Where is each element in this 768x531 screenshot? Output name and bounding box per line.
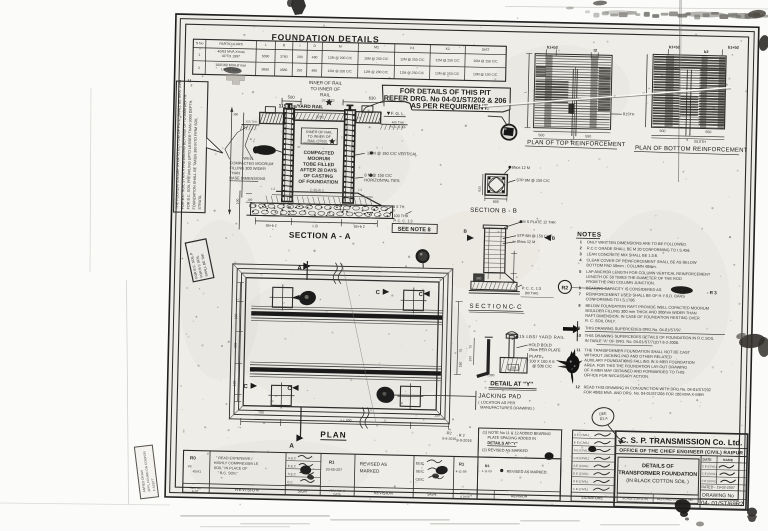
svg-text:8-9-2016: 8-9-2016 (442, 437, 456, 441)
svg-text:R3: R3 (485, 464, 490, 468)
svg-text:95+b 2: 95+b 2 (266, 224, 277, 228)
svg-text:SIGNATURE: SIGNATURE (581, 496, 603, 501)
svg-text:480: 480 (311, 69, 317, 73)
svg-text:3760: 3760 (280, 55, 288, 59)
svg-text:250: 250 (297, 68, 303, 72)
svg-text:t: t (300, 44, 301, 48)
svg-text:12M @ 200 C/C: 12M @ 200 C/C (328, 69, 353, 74)
svg-text:480: 480 (312, 55, 318, 59)
svg-text:04- 01/ST/69R2: 04- 01/ST/69R2 (701, 501, 744, 508)
svg-text:NOTES: NOTES (577, 231, 602, 239)
svg-text:150: 150 (468, 356, 472, 362)
SECTION B-B column section (485, 174, 507, 195)
svg-text:S E C T I O N C- C: S E C T I O N C- C (469, 303, 522, 311)
svg-text:100: 100 (236, 198, 240, 204)
svg-text:AS PER REQUIRMENT.: AS PER REQUIRMENT. (411, 101, 489, 112)
svg-text:12M @ 250 C/C: 12M @ 250 C/C (400, 57, 425, 62)
left margin vertical note block (174, 81, 208, 213)
svg-text:E E (CIVIL): E E (CIVIL) (574, 440, 589, 444)
svg-text:8Nos 12 M: 8Nos 12 M (512, 166, 530, 170)
svg-text:10M @ 150 C/C: 10M @ 150 C/C (473, 59, 498, 64)
svg-text:(80 THK): (80 THK) (525, 291, 539, 295)
note box: FOR DETAILS OF THIS PIT REFER DRG (382, 85, 511, 112)
svg-text:10M @ 200 C/C: 10M @ 200 C/C (364, 57, 389, 62)
svg-text:500: 500 (538, 133, 544, 137)
svg-text:12M @ 250 C/C: 12M @ 250 C/C (435, 58, 460, 63)
svg-text:& DATE: & DATE (460, 495, 470, 499)
svg-text:a + 600: a + 600 (340, 418, 352, 422)
svg-text:500: 500 (659, 129, 665, 133)
svg-text:TO INNER OF: TO INNER OF (311, 86, 341, 92)
svg-text:K2: K2 (446, 47, 450, 51)
svg-text:M S PLATE 12 THK: M S PLATE 12 THK (522, 220, 556, 225)
DETAIL AT Y rail fixing detail (477, 339, 489, 377)
svg-text:550: 550 (585, 134, 591, 138)
svg-text:100 THK: 100 THK (393, 214, 408, 218)
svg-text:b1+b2: b1+b2 (728, 46, 739, 50)
svg-text:F. G. L.: F. G. L. (391, 111, 405, 116)
svg-text:K1: K1 (410, 46, 414, 50)
svg-text:4580: 4580 (280, 68, 288, 72)
svg-text:A: A (297, 265, 302, 272)
svg-text:4-11-09: 4-11-09 (456, 469, 467, 473)
svg-text:- R 2: - R 2 (456, 433, 464, 437)
svg-text:REVISION: REVISION (511, 494, 528, 498)
svg-text:L: L (265, 43, 267, 47)
signature column (571, 430, 616, 502)
svg-text:STRATA.: STRATA. (198, 195, 202, 210)
svg-text:700: 700 (258, 410, 264, 414)
svg-text:12M @ 250 C/C: 12M @ 250 C/C (400, 71, 425, 76)
svg-text:550: 550 (705, 130, 711, 134)
svg-text:A E (CIVIL): A E (CIVIL) (574, 433, 589, 437)
svg-text:2: 2 (198, 66, 200, 70)
svg-text:PLAN: PLAN (320, 430, 346, 440)
svg-text:600: 600 (493, 200, 499, 204)
svg-text:& DT: & DT (192, 489, 199, 493)
svg-text:630: 630 (478, 186, 482, 192)
svg-text:S No: S No (196, 41, 204, 45)
svg-text:150: 150 (434, 413, 440, 417)
svg-text:SEE NOTE 8: SEE NOTE 8 (398, 227, 431, 234)
revision table strip (183, 450, 561, 501)
svg-text:100: 100 (233, 380, 237, 386)
svg-text:DRAWING No: DRAWING No (702, 493, 734, 500)
svg-text:B 5 TH.: B 5 TH. (393, 205, 406, 209)
PLAN top view of foundation (229, 264, 452, 424)
svg-text:3: 3 (190, 83, 192, 87)
svg-text:5090: 5090 (262, 54, 270, 58)
svg-text:1: 1 (198, 53, 200, 57)
svg-text:REVISION: REVISION (374, 490, 393, 495)
scan artifacts: creases, stains, smudges (679, 0, 681, 182)
svg-text:SIGN.: SIGN. (427, 492, 437, 496)
svg-text:4-11-09: 4-11-09 (482, 469, 493, 473)
svg-text:9890: 9890 (261, 68, 269, 72)
svg-text:a: a (686, 138, 688, 142)
svg-text:200: 200 (297, 55, 303, 59)
svg-text:DIST: DIST (482, 48, 490, 52)
svg-text:L: L (641, 91, 645, 93)
svg-text:R2: R2 (561, 285, 568, 291)
svg-text:B1STH: B1STH (623, 112, 635, 116)
svg-text:300: 300 (233, 112, 238, 116)
svg-text:R1: R1 (459, 462, 465, 467)
svg-text:100: 100 (510, 366, 516, 370)
svg-text:12M @ 200 C/C: 12M @ 200 C/C (328, 56, 353, 61)
drawing sheet border frame (165, 14, 759, 510)
svg-text:500: 500 (288, 95, 296, 100)
svg-text:P. C. C. 1:3: P. C. C. 1:3 (393, 219, 412, 223)
svg-text:RAIL: RAIL (320, 92, 331, 97)
SECTION C-C pedestal section (484, 228, 506, 273)
svg-text:95+b 2: 95+b 2 (354, 225, 365, 229)
svg-text:12M @ 200 C/C: 12M @ 200 C/C (364, 70, 389, 75)
svg-text:7: 7 (579, 291, 581, 296)
svg-text:b1+b2: b1+b2 (669, 45, 680, 49)
svg-text:-R2: -R2 (446, 431, 452, 435)
svg-text:M: M (339, 45, 342, 49)
svg-text:INNER OF RAIL: INNER OF RAIL (309, 80, 343, 86)
PLAN OF TOP REINFORCEMENT (534, 54, 613, 130)
svg-text:UPTO 1997: UPTO 1997 (222, 54, 241, 58)
svg-text:R0: R0 (190, 455, 196, 460)
svg-text:L300: L300 (487, 373, 494, 377)
svg-text:SEIC: SEIC (416, 470, 425, 474)
svg-text:8-9-2016: 8-9-2016 (456, 438, 471, 442)
svg-text:@ 500 C/C: @ 500 C/C (532, 363, 552, 368)
svg-text:B1STH: B1STH (694, 140, 706, 144)
title block C.S.P TRANSMISSION Co. Ltd. (614, 431, 748, 509)
svg-text:STP 8M @ 150 C/C: STP 8M @ 150 C/C (516, 178, 550, 183)
svg-text:CEIC: CEIC (415, 478, 424, 482)
svg-text:SECTION A - A: SECTION A - A (289, 231, 351, 241)
PLAN OF BOTTOM REINFORCEMENT (652, 54, 727, 129)
svg-text:DETAILS AT-"Y": DETAILS AT-"Y" (487, 440, 518, 446)
svg-text:630: 630 (369, 95, 377, 100)
svg-text:DETAIL AT "Y": DETAIL AT "Y" (490, 380, 533, 388)
svg-text:L B: L B (313, 224, 319, 228)
svg-text:2Nos PER PLATE: 2Nos PER PLATE (528, 347, 561, 353)
svg-text:b2: b2 (704, 50, 709, 54)
svg-text:M2: M2 (374, 45, 379, 49)
